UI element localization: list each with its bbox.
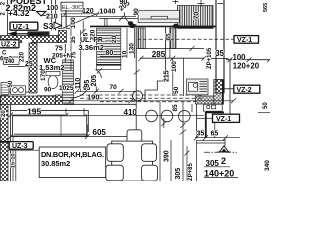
tick 190 right xyxy=(231,98,236,103)
dim line 190 row xyxy=(57,100,234,102)
dim line 100/120+20 right xyxy=(226,59,270,61)
svg-text:305: 305 xyxy=(206,159,220,168)
svg-text:50: 50 xyxy=(173,86,180,94)
living room left inner lines xyxy=(10,105,12,182)
svg-text:10: 10 xyxy=(11,153,17,159)
EL box top xyxy=(61,2,83,11)
svg-text:95: 95 xyxy=(84,80,91,88)
dash-dot line bottom level mark xyxy=(204,151,237,153)
beam arrow left xyxy=(8,31,17,36)
tick on x136 line xyxy=(134,70,140,75)
right wall top tick xyxy=(218,3,224,5)
dashed line lower xyxy=(80,97,204,99)
UL.PR room divider lines xyxy=(126,28,128,58)
UZ-3 box xyxy=(9,142,33,150)
svg-text:65: 65 xyxy=(165,33,172,41)
walkline arc stairs xyxy=(96,70,102,79)
chair left top xyxy=(107,144,123,162)
kitchen checker wall vertical xyxy=(214,80,223,105)
svg-text:ZP+85: ZP+85 xyxy=(188,162,194,181)
stair flight bottom thick edge xyxy=(97,64,121,66)
VZ-1 box top xyxy=(234,36,259,44)
wall stub below VZ1 box xyxy=(214,123,216,138)
column ellipse mid xyxy=(128,21,134,25)
svg-text:305: 305 xyxy=(175,168,182,180)
top-right striped wall block xyxy=(178,6,214,27)
right wall double lines xyxy=(215,0,217,93)
svg-text:25: 25 xyxy=(25,61,33,68)
svg-text:110: 110 xyxy=(75,78,82,89)
svg-text:100: 100 xyxy=(171,61,178,72)
UZ-2 box xyxy=(0,40,19,48)
wall between UZ-2 room and WC vertical xyxy=(29,43,37,93)
svg-text:605: 605 xyxy=(93,128,107,137)
svg-text:MJ:50: MJ:50 xyxy=(30,31,42,36)
dim line 35-65 bottom right xyxy=(195,137,240,139)
door arc kitchen top xyxy=(124,12,136,25)
door arc WC xyxy=(71,77,93,99)
dashed line upper xyxy=(80,94,204,96)
svg-text:340: 340 xyxy=(264,160,270,171)
short double lines right door xyxy=(197,140,226,142)
svg-text:85: 85 xyxy=(172,104,179,112)
svg-text:100: 100 xyxy=(47,5,59,12)
svg-text:210: 210 xyxy=(46,13,58,20)
svg-text:35: 35 xyxy=(215,49,224,58)
dim line 410 row xyxy=(55,115,204,117)
svg-text:410: 410 xyxy=(124,108,138,117)
chair right top xyxy=(142,144,157,162)
VZ-2 box xyxy=(234,85,260,93)
wall block right of door top-left xyxy=(59,31,67,43)
counter top rect xyxy=(138,10,179,22)
dash-dot line to VZ-1 bottom xyxy=(197,117,212,119)
stair flight UL.PR left run xyxy=(97,28,121,64)
vertical stub right xyxy=(224,138,226,146)
radiator left xyxy=(1,83,9,95)
chair right bottom xyxy=(142,165,158,181)
dim vertical door left xyxy=(65,8,67,26)
dim line top 1040 xyxy=(61,15,136,17)
right edge dim line 50 xyxy=(258,112,270,114)
dim line 95/70 row xyxy=(77,90,136,92)
kitchen checker wall horizontal xyxy=(196,96,223,104)
svg-text:215: 215 xyxy=(164,70,171,82)
thick stub left of UZ-3 xyxy=(0,141,10,143)
level marker top-left xyxy=(36,11,46,16)
svg-text:75: 75 xyxy=(72,51,78,58)
dim verticals middle 215/100 xyxy=(172,58,174,96)
sofa big outline xyxy=(11,111,89,132)
dim vertical x80.7 xyxy=(80,30,82,92)
svg-text:EL.-30C: EL.-30C xyxy=(62,5,82,11)
wall line x136 vertical xyxy=(135,27,137,58)
svg-text:15: 15 xyxy=(11,162,17,168)
svg-text:50: 50 xyxy=(8,80,14,87)
dim line 80 under stairs xyxy=(100,55,127,57)
kitchen step polyline xyxy=(145,58,166,102)
landing left edge line xyxy=(7,0,9,36)
dim line 140+20 bottom xyxy=(204,177,238,179)
svg-text:130: 130 xyxy=(129,43,136,54)
dim line 285 row xyxy=(140,57,204,59)
column ellipse left xyxy=(129,24,135,28)
svg-text:30.85m2: 30.85m2 xyxy=(41,159,70,168)
WC toilet xyxy=(48,75,58,88)
svg-text:205: 205 xyxy=(91,75,98,87)
DN.BOR text box xyxy=(39,147,106,178)
right wall hatch section xyxy=(216,80,224,94)
svg-text:+4.32: +4.32 xyxy=(8,8,30,18)
svg-text:2: 2 xyxy=(221,156,226,166)
landing right edge lines xyxy=(51,0,53,31)
ticks on 605 line xyxy=(8,134,139,139)
stair flight right narrow run xyxy=(138,28,145,49)
door arc top-left xyxy=(63,14,97,29)
UZ2 room inner line xyxy=(8,66,29,68)
svg-text:285: 285 xyxy=(152,50,166,59)
tick bottom chain xyxy=(180,123,190,156)
dim ticks 190 row xyxy=(69,98,134,103)
wall lines right of UL.PR xyxy=(165,27,167,58)
svg-text:20: 20 xyxy=(1,110,7,117)
svg-text:170: 170 xyxy=(40,70,47,81)
ticks on right 100 line xyxy=(228,57,271,62)
S3 triangle xyxy=(54,22,62,29)
dim vertical x96 xyxy=(95,84,97,92)
dim line 195 xyxy=(10,114,65,116)
svg-text:195: 195 xyxy=(27,107,41,117)
dim line 305 bottom xyxy=(204,166,230,168)
svg-text:90: 90 xyxy=(120,0,128,6)
living room top thin line xyxy=(65,103,137,105)
svg-text:VZ-1: VZ-1 xyxy=(237,37,252,44)
dim line 605 row xyxy=(10,136,136,138)
line under stair right flights xyxy=(136,47,204,49)
door axis dashdot xyxy=(58,27,75,29)
svg-text:20: 20 xyxy=(111,35,118,43)
dim stub x83 xyxy=(82,21,84,34)
svg-text:UZ-1: UZ-1 xyxy=(13,22,30,31)
top small dim tick xyxy=(173,0,205,7)
UZ-1 box xyxy=(10,22,38,30)
WC room lines xyxy=(37,67,66,69)
svg-text:120+20: 120+20 xyxy=(233,61,260,70)
column ellipse right xyxy=(173,24,179,28)
kitchen wall thick L xyxy=(206,80,224,138)
box 140 xyxy=(4,57,20,65)
right outer vertical line xyxy=(229,60,231,116)
dim line UZ2 room xyxy=(8,91,29,93)
door leaf top-left xyxy=(61,14,63,28)
svg-text:565: 565 xyxy=(263,3,269,12)
armchair mid xyxy=(127,130,142,145)
svg-text:3.36m2: 3.36m2 xyxy=(79,43,104,52)
door frame lines mid xyxy=(104,19,106,28)
right wall cross tick xyxy=(211,58,229,60)
dim tick top xyxy=(64,12,125,21)
ticks on 285 line xyxy=(139,56,207,61)
svg-text:35: 35 xyxy=(70,36,77,44)
svg-text:DN.BOR,KH,BLAG.: DN.BOR,KH,BLAG. xyxy=(41,150,104,159)
tick on mid line xyxy=(163,118,165,128)
ticks on 95-70 line xyxy=(75,89,124,94)
svg-text:90: 90 xyxy=(44,87,52,94)
svg-text:UZ-2: UZ-2 xyxy=(1,41,17,48)
svg-text:UZ-3: UZ-3 xyxy=(12,143,28,150)
svg-text:140: 140 xyxy=(5,59,16,65)
stair landing below left run xyxy=(97,65,121,70)
dining table xyxy=(112,141,153,181)
wall top-left horizontal band xyxy=(1,36,59,43)
dim vertical x71 xyxy=(70,28,72,70)
svg-text:10: 10 xyxy=(122,50,129,58)
svg-text:90: 90 xyxy=(133,8,140,16)
svg-text:190: 190 xyxy=(87,92,100,101)
VZ-1 box bottom xyxy=(213,114,240,122)
WC basin xyxy=(11,86,26,95)
line under UZ-3 xyxy=(8,149,40,151)
svg-text:65: 65 xyxy=(211,131,219,138)
dim tick 410 xyxy=(82,108,87,119)
dashed line in stair zone xyxy=(138,38,235,40)
svg-text:VZ-2: VZ-2 xyxy=(237,87,252,94)
lower sink counter xyxy=(204,104,223,111)
svg-text:1040: 1040 xyxy=(99,7,115,16)
sink unit right xyxy=(187,79,209,95)
wall band above living room xyxy=(1,96,56,105)
svg-text:120: 120 xyxy=(82,8,94,15)
svg-text:ZP+105: ZP+105 xyxy=(207,47,213,69)
svg-text:70: 70 xyxy=(110,84,118,91)
svg-text:50: 50 xyxy=(263,102,269,109)
svg-text:70: 70 xyxy=(194,12,201,20)
stair flight WC side vertical run xyxy=(63,60,74,105)
wall left vertical xyxy=(1,96,9,182)
dim verticals bottom right chain xyxy=(159,102,161,181)
chair left bottom xyxy=(106,165,124,181)
wall pier dark near stairs bottom xyxy=(56,95,65,105)
lamp circle small xyxy=(133,91,143,101)
wall line top long xyxy=(90,25,216,27)
dim tick 605 xyxy=(85,125,90,140)
svg-text:140+20: 140+20 xyxy=(204,169,234,179)
svg-text:VZ-1: VZ-1 xyxy=(216,116,231,123)
tick 195 left xyxy=(8,113,13,118)
line to VZ-2 xyxy=(224,88,234,90)
svg-text:1025: 1025 xyxy=(59,85,74,92)
svg-text:75: 75 xyxy=(55,46,63,53)
stair stripes right of UL.PR xyxy=(170,28,176,49)
kitchen wall thin pair xyxy=(196,104,198,138)
svg-text:100: 100 xyxy=(70,17,77,28)
svg-text:80: 80 xyxy=(106,50,114,57)
dining lamp circles xyxy=(146,110,158,122)
svg-text:S3: S3 xyxy=(43,21,54,31)
svg-text:390: 390 xyxy=(164,150,171,162)
dashed line mid room xyxy=(100,101,196,103)
level marker bottom right xyxy=(220,146,229,152)
svg-text:35: 35 xyxy=(197,131,205,138)
